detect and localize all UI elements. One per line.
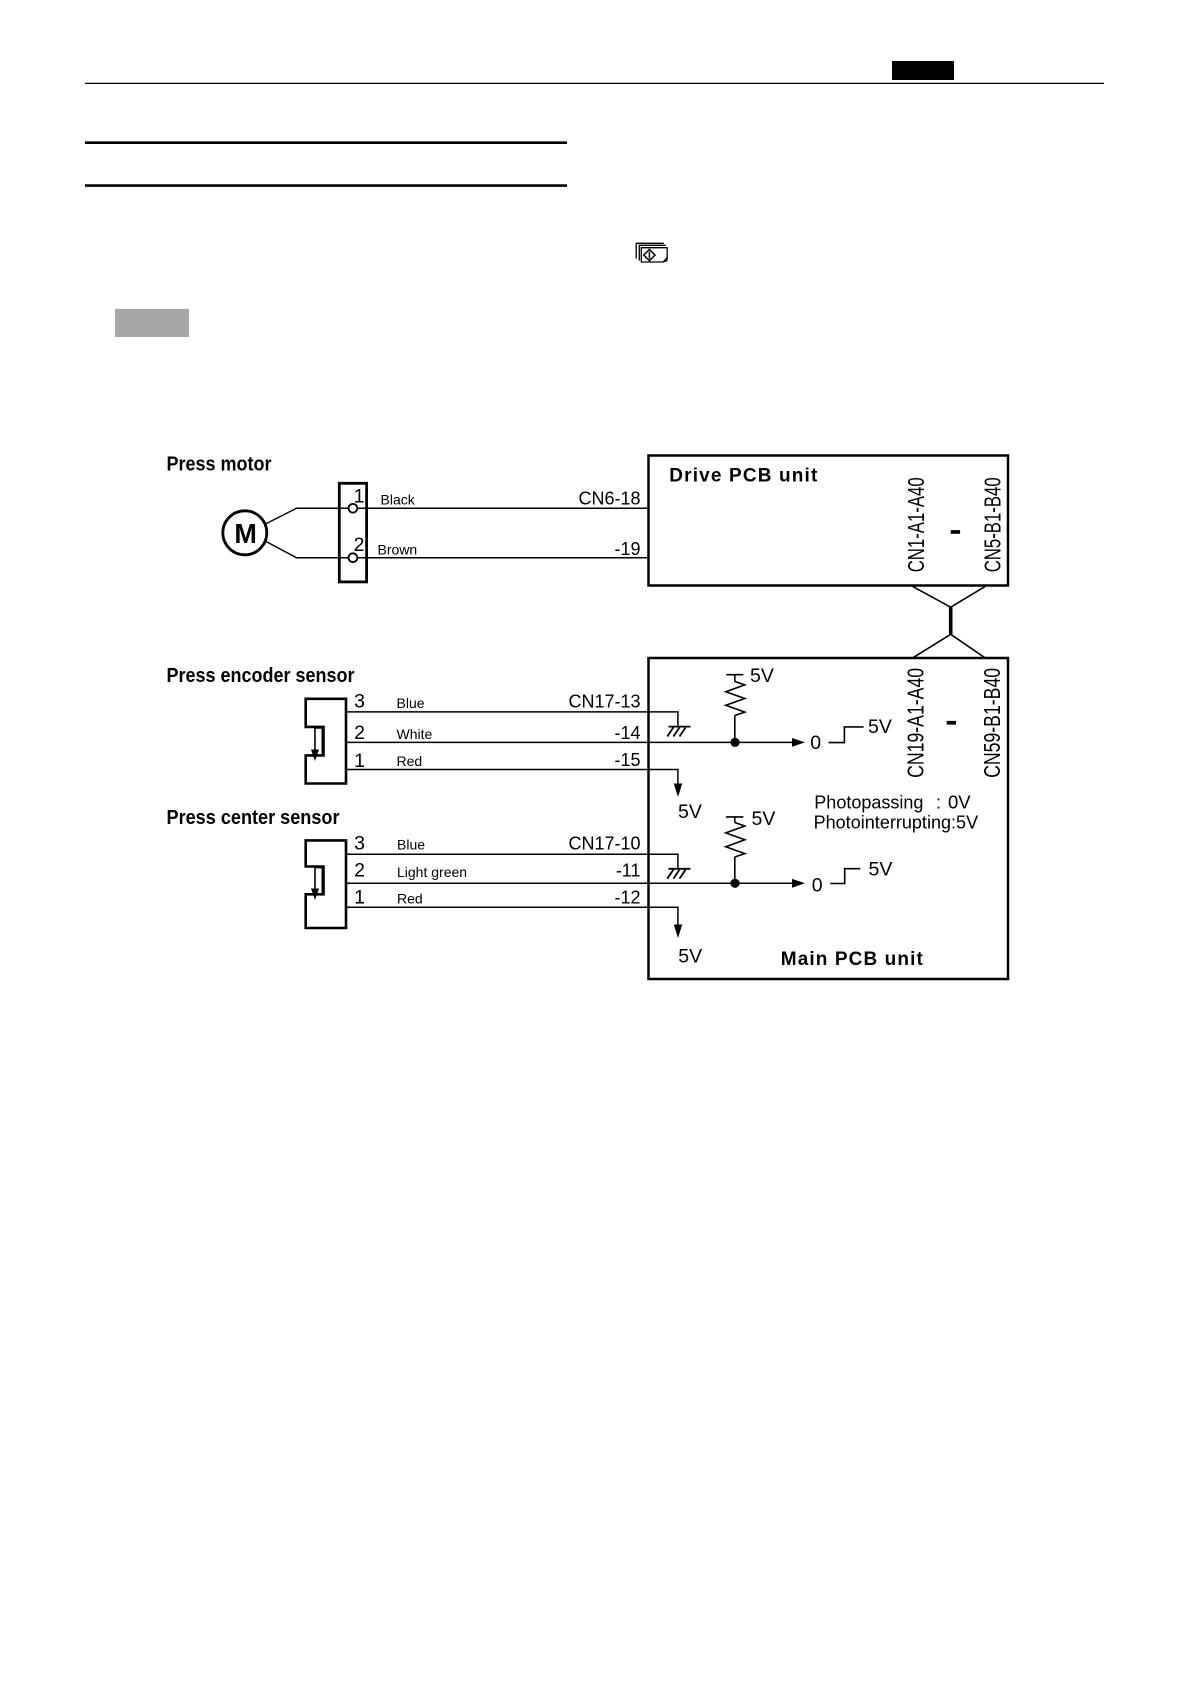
svg-text:CN1-A1-A40: CN1-A1-A40 <box>903 477 929 572</box>
svg-text:5V: 5V <box>752 808 776 830</box>
svg-text:Red: Red <box>397 753 423 769</box>
svg-text:Press motor: Press motor <box>167 454 272 476</box>
svg-text:5V: 5V <box>869 858 893 880</box>
svg-text:2: 2 <box>354 722 365 744</box>
svg-text:0: 0 <box>810 732 821 754</box>
svg-text:-12: -12 <box>614 887 640 907</box>
svg-text:1: 1 <box>354 886 365 908</box>
svg-text:Blue: Blue <box>397 837 425 853</box>
svg-text:5V: 5V <box>750 665 774 687</box>
svg-text:Press center sensor: Press center sensor <box>167 807 340 829</box>
svg-text:-11: -11 <box>616 861 641 881</box>
svg-text:2: 2 <box>354 860 365 882</box>
svg-text:5V: 5V <box>678 801 702 823</box>
svg-text:-19: -19 <box>614 539 640 559</box>
svg-text:M: M <box>234 518 257 549</box>
svg-text:0: 0 <box>812 875 823 897</box>
svg-text:CN6-18: CN6-18 <box>578 489 640 509</box>
svg-text:Blue: Blue <box>397 695 425 711</box>
svg-text:Photointerrupting:5V: Photointerrupting:5V <box>814 813 979 833</box>
svg-text:Main PCB unit: Main PCB unit <box>781 949 924 970</box>
svg-text:CN5-B1-B40: CN5-B1-B40 <box>979 477 1005 572</box>
svg-text:Light green: Light green <box>397 864 467 880</box>
svg-text:Brown: Brown <box>378 542 418 558</box>
svg-text:CN17-10: CN17-10 <box>568 833 640 853</box>
svg-text:1: 1 <box>354 486 365 508</box>
svg-text:2: 2 <box>354 534 365 556</box>
svg-text::: : <box>936 792 941 812</box>
svg-text:5V: 5V <box>678 945 702 967</box>
svg-text:3: 3 <box>354 691 365 713</box>
svg-text:Drive PCB unit: Drive PCB unit <box>669 465 818 486</box>
svg-text:Red: Red <box>397 891 423 907</box>
svg-text:Press encoder sensor: Press encoder sensor <box>167 665 355 687</box>
svg-text:CN19-A1-A40: CN19-A1-A40 <box>903 668 929 778</box>
svg-text:Black: Black <box>381 492 416 508</box>
svg-text:CN59-B1-B40: CN59-B1-B40 <box>979 668 1005 778</box>
svg-text:1: 1 <box>354 750 365 772</box>
svg-text:Photopassing: Photopassing <box>814 792 923 812</box>
svg-text:CN17-13: CN17-13 <box>568 691 640 711</box>
svg-text:-15: -15 <box>614 750 640 770</box>
svg-text:5V: 5V <box>868 716 892 738</box>
svg-text:3: 3 <box>354 832 365 854</box>
svg-text:-14: -14 <box>614 723 640 743</box>
svg-text:White: White <box>397 726 433 742</box>
svg-text:0V: 0V <box>948 791 971 812</box>
